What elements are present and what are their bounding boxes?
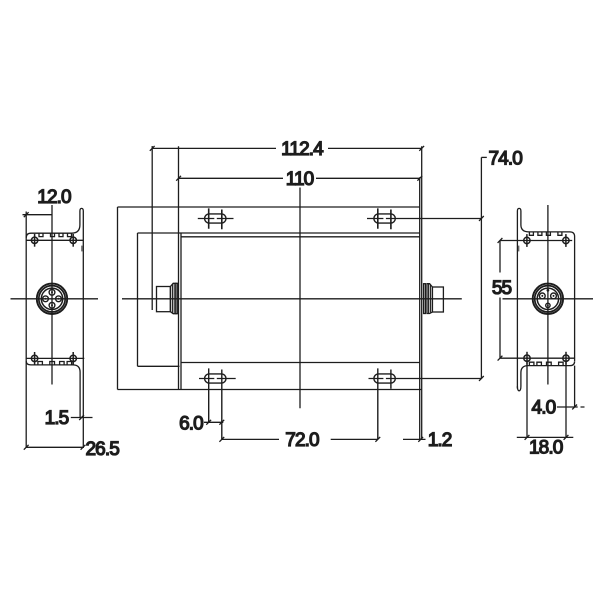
front bottom-left slot centerline bbox=[199, 378, 236, 380]
dimension 55 ticks bbox=[498, 238, 503, 361]
front body left sheet edge inner bbox=[180, 233, 182, 390]
dimension 112.4 line bbox=[152, 147, 422, 149]
right view bottom screw A bbox=[524, 355, 530, 361]
right view top flange and plate bbox=[517, 208, 574, 361]
left view bottom screw B bbox=[70, 355, 76, 361]
right view body right edge extension for 4.0 bbox=[574, 366, 576, 407]
front body right sheet edge inner bbox=[419, 177, 421, 439]
right view bottom plate and flange bbox=[517, 361, 574, 391]
dimension 26.5 tick left bbox=[24, 445, 29, 450]
left view top tabs bbox=[39, 233, 72, 236]
right view bottom screw B bbox=[563, 355, 569, 361]
right view top tabs bbox=[529, 232, 562, 235]
left view bottom screw row line bbox=[26, 357, 85, 359]
front left plug square bbox=[157, 287, 171, 312]
right view horizontal centerline bbox=[503, 298, 594, 300]
right view vertical centerline bbox=[547, 205, 549, 385]
dimension 55 vertical line bbox=[499, 241, 501, 359]
svg-text:112.4: 112.4 bbox=[281, 139, 324, 160]
front bracket fold top line bbox=[138, 232, 420, 234]
left view connector pin E bbox=[56, 296, 62, 302]
front bottom-left slot stadium bbox=[205, 374, 226, 383]
right view connector pin N dot bbox=[547, 289, 550, 292]
svg-text:1.5: 1.5 bbox=[45, 408, 69, 429]
left view connector inner circle bbox=[41, 288, 62, 309]
front right plug washer bbox=[424, 284, 426, 314]
dimension 110 ticks bbox=[176, 176, 422, 181]
left view connector pin N bbox=[49, 289, 55, 295]
right view top screw A bbox=[524, 237, 530, 243]
svg-text:26.5: 26.5 bbox=[86, 439, 120, 460]
front bottom-left slot screw lines bbox=[209, 368, 222, 439]
svg-text:55: 55 bbox=[492, 278, 512, 299]
dimension 18.0 extension lines bbox=[527, 362, 566, 438]
front body left sheet edge outer bbox=[178, 146, 180, 389]
front left plug washer bbox=[176, 283, 178, 313]
right view connector ring bbox=[535, 286, 561, 312]
right view top screw B bbox=[563, 237, 569, 243]
dimension 18.0 line bbox=[517, 436, 574, 438]
left view left edge with 12.0 extension bbox=[25, 212, 27, 448]
right view left edge bbox=[516, 211, 518, 389]
front bottom-right slot screw lines bbox=[378, 368, 391, 439]
dimension 74.0 top hook bbox=[481, 156, 486, 158]
svg-text:1.2: 1.2 bbox=[428, 430, 452, 451]
left view top screw row line bbox=[26, 239, 83, 241]
left view connector pin W bbox=[43, 296, 49, 302]
dimension 18.0 ticks bbox=[525, 435, 569, 440]
left view horizontal centerline bbox=[11, 298, 99, 300]
dimension 4.0 line bbox=[557, 406, 585, 408]
svg-text:72.0: 72.0 bbox=[285, 430, 319, 451]
front bracket fold left edge bbox=[137, 233, 139, 366]
left view connector outer circle bbox=[37, 284, 67, 314]
svg-text:6.0: 6.0 bbox=[179, 414, 203, 435]
left view connector pin S bbox=[49, 302, 55, 308]
dimension 6.0 ticks bbox=[206, 420, 224, 425]
dimension 112.4 left extension line bbox=[151, 146, 153, 310]
right view left edge step mark bbox=[518, 246, 520, 252]
front top-left slot screw lines bbox=[209, 208, 222, 229]
dimension 72.0 line bbox=[222, 438, 378, 440]
right view connector outer circle bbox=[533, 284, 563, 314]
front right plug nut bbox=[427, 284, 432, 314]
right view connector pin S bbox=[546, 303, 550, 307]
dimension 74.0 ticks bbox=[479, 216, 484, 381]
dimension 1.2 tick bbox=[418, 437, 423, 442]
front outer bracket left edge bbox=[117, 207, 119, 390]
front bracket fold bottom line bbox=[138, 365, 180, 367]
front body bottom edge bbox=[181, 362, 420, 364]
front top-right slot screw lines bbox=[378, 208, 391, 229]
svg-text:74.0: 74.0 bbox=[489, 149, 523, 170]
dimension 26.5 tick right bbox=[81, 445, 86, 450]
left view bottom tabs bbox=[38, 362, 72, 365]
dimension 26.5 line bbox=[26, 446, 84, 448]
dimension 1.5 tick bbox=[79, 415, 84, 420]
svg-text:4.0: 4.0 bbox=[532, 397, 556, 418]
dimension 110 line bbox=[179, 177, 420, 179]
front top-left slot centerline bbox=[198, 218, 234, 220]
right view connector pin W bbox=[539, 293, 545, 299]
front body right sheet edge outer bbox=[421, 146, 423, 439]
front bottom-right slot stadium bbox=[374, 374, 395, 383]
front top-right slot stadium bbox=[374, 214, 395, 223]
dimension 112.4 ticks bbox=[150, 146, 424, 151]
dimension 12.0 line bbox=[23, 214, 53, 216]
right view connector pin E bbox=[551, 293, 557, 299]
left view connector ring bbox=[39, 286, 65, 312]
front top-left slot stadium bbox=[205, 214, 226, 223]
front body top edge bbox=[181, 236, 420, 238]
left view top screw B bbox=[70, 237, 76, 243]
front top-right slot centerline extending to 74.0 bbox=[367, 218, 481, 220]
svg-text:12.0: 12.0 bbox=[37, 187, 71, 208]
dimension 6.0 line bbox=[204, 421, 223, 423]
svg-text:18.0: 18.0 bbox=[529, 438, 563, 459]
right view bottom tabs bbox=[529, 362, 563, 365]
dimension 1.2 line bbox=[403, 438, 426, 440]
right view bottom screw row line bbox=[500, 357, 574, 359]
front horizontal centerline bbox=[122, 298, 462, 300]
dimension 74.0 vertical line bbox=[480, 157, 482, 378]
dimension 12.0 tick bbox=[24, 212, 29, 217]
left view bottom plate and flange bbox=[26, 361, 80, 417]
left view right edge step mark bbox=[81, 246, 83, 252]
front bottom-right slot centerline extending to 74.0 bbox=[369, 378, 482, 380]
front right plug square bbox=[432, 287, 443, 312]
front vertical centerline bbox=[299, 188, 301, 409]
front left plug nut bbox=[170, 283, 175, 313]
left view bottom screw A bbox=[31, 355, 37, 361]
right view connector inner circle bbox=[537, 288, 558, 309]
dimension 72.0 ticks bbox=[219, 437, 380, 442]
right view top screw row line bbox=[500, 240, 572, 242]
dimension 1.5 line bbox=[71, 417, 93, 419]
dimension 4.0 tick bbox=[572, 405, 577, 410]
svg-text:110: 110 bbox=[286, 169, 314, 190]
left view top screw A bbox=[31, 237, 37, 243]
front outer bracket top edge bbox=[118, 206, 420, 208]
left view top plate and right flange bbox=[26, 208, 83, 447]
front outer bracket bottom edge bbox=[118, 389, 422, 391]
left view vertical centerline bbox=[51, 205, 53, 385]
